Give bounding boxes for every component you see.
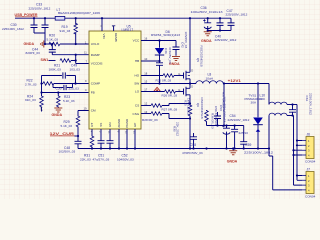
svg-text:GNDA: GNDA [227, 159, 238, 163]
svg-text:474/25V_03: 474/25V_03 [168, 47, 172, 64]
pin CSG [132, 110, 147, 116]
wire return feed to J6 pins 3 4 and J7 pin 3 [294, 116, 303, 186]
net label +12V1 [228, 79, 241, 83]
wire input cap ground rail [208, 30, 231, 32]
resistor R30 rotated label [172, 122, 179, 136]
wire sense column [221, 84, 225, 126]
svg-text:470PF/50V_03: 470PF/50V_03 [182, 151, 203, 155]
wire VCC [141, 40, 176, 42]
svg-text:225/100V_1812: 225/100V_1812 [215, 38, 237, 42]
svg-text:104/50V_03: 104/50V_03 [117, 157, 134, 161]
svg-text:SS: SS [99, 123, 103, 127]
capacitor C42 [173, 32, 189, 56]
capacitor C49 [42, 64, 81, 84]
svg-text:105/25V_03: 105/25V_03 [184, 32, 188, 49]
inductor L10 winding 2 [269, 113, 294, 115]
junction dots L10 [291, 103, 293, 116]
svg-text:RT: RT [90, 123, 94, 127]
svg-text:100u/50V_D10x13: 100u/50V_D10x13 [191, 10, 223, 14]
wire CS with resistor R27 [141, 104, 190, 112]
svg-text:91K_03: 91K_03 [60, 29, 71, 33]
pin VCC [133, 37, 148, 43]
svg-text:C56 330p/50V: C56 330p/50V [214, 106, 218, 127]
ferrite bead L7 [55, 8, 100, 20]
capacitor C61 [289, 93, 313, 116]
svg-text:CON04: CON04 [305, 160, 316, 164]
pin EN bottom [108, 122, 113, 134]
svg-text:Q6: Q6 [196, 103, 200, 107]
svg-text:30A: 30A [251, 101, 257, 105]
connector J7 [302, 167, 316, 198]
svg-text:10: 10 [144, 57, 147, 61]
resistor R29 [61, 111, 90, 137]
svg-text:HB: HB [135, 59, 139, 63]
wire AGND pin down [126, 129, 128, 149]
net label 12V_CUR [50, 132, 79, 136]
svg-text:VIN: VIN [102, 34, 106, 39]
svg-text:180K_03: 180K_03 [49, 68, 62, 72]
pin RT bottom [90, 123, 95, 133]
wire HO with resistor R25 [141, 74, 184, 83]
svg-text:18: 18 [144, 71, 147, 75]
resistor R21 [49, 55, 90, 72]
net label USB_POWER [15, 13, 38, 17]
svg-text:C42: C42 [181, 42, 185, 48]
svg-text:5.1K_03: 5.1K_03 [61, 124, 73, 128]
svg-text:22K_03: 22K_03 [80, 157, 91, 161]
capacitor C50 [53, 84, 79, 91]
pin COMP [85, 79, 100, 86]
svg-text:G: G [178, 72, 180, 76]
wire ground feed to J7 pin 4 [269, 149, 302, 190]
wire CSG with resistor R28 [141, 112, 190, 123]
resistor R20 [47, 34, 90, 46]
svg-text:100u/50V_D10x13: 100u/50V_D10x13 [222, 97, 226, 123]
svg-text:CM: CM [91, 109, 96, 113]
ground GNDA under R23 [52, 108, 63, 117]
svg-text:17: 17 [144, 87, 147, 91]
resistor R23 [57, 93, 75, 108]
capacitor C56 [214, 106, 221, 127]
wire HB [141, 60, 160, 62]
pin RAMP [84, 51, 100, 57]
svg-text:D: D [191, 85, 193, 89]
wire LO with resistor R26 [141, 90, 184, 98]
svg-text:R25 0R_03: R25 0R_03 [156, 78, 172, 82]
pin HB [135, 57, 148, 63]
resistor R36 [205, 110, 215, 129]
pin LO [135, 87, 148, 93]
wire left column [41, 76, 43, 93]
svg-text:+12V1: +12V1 [228, 79, 241, 83]
wire EP pin down [134, 129, 136, 149]
svg-text:PGND: PGND [125, 118, 129, 128]
svg-text:12V_CUR: 12V_CUR [50, 132, 75, 136]
svg-text:R27 0R_03: R27 0R_03 [162, 107, 178, 111]
pin AGND bottom [117, 118, 122, 133]
transistor Q6 [178, 84, 204, 119]
svg-text:COMP: COMP [91, 82, 100, 86]
svg-text:GNDA: GNDA [201, 39, 212, 43]
svg-text:C58: C58 [190, 143, 196, 147]
svg-text:225/100V_1812: 225/100V_1812 [2, 27, 24, 31]
label fragment C55 [239, 131, 249, 135]
svg-text:16: 16 [144, 37, 147, 41]
svg-text:J6: J6 [307, 132, 311, 136]
pin SS bottom [99, 123, 104, 133]
resistor R22 [25, 79, 89, 87]
resistor R35 shunt [183, 98, 192, 149]
svg-text:RSC002N05LB: RSC002N05LB [199, 46, 203, 67]
resistor R24 [25, 93, 43, 112]
junction dots connectors [268, 139, 298, 176]
junction dots input caps [207, 17, 222, 32]
capacitor C58 [182, 133, 203, 155]
capacitor C53 electrolytic output [219, 97, 230, 149]
junction dots left [33, 17, 79, 137]
svg-text:G: G [178, 88, 180, 92]
svg-text:R28 0R_03: R28 0R_03 [142, 118, 158, 122]
capacitor C59 [240, 126, 273, 155]
pin HO [135, 71, 148, 77]
svg-text:R26 0R_03: R26 0R_03 [162, 93, 178, 97]
wire cap bottoms to ground [34, 33, 45, 44]
ground GNDA input caps [201, 31, 212, 44]
pin VCCDIS [86, 59, 103, 65]
junction dots output bus [216, 124, 235, 126]
svg-text:SW: SW [134, 82, 139, 86]
wire output cap bus [207, 125, 244, 127]
svg-text:2.7K_03: 2.7K_03 [25, 83, 37, 87]
capacitor C44 [26, 44, 56, 55]
svg-text:22K_2512: 22K_2512 [176, 122, 180, 136]
svg-text:1W05_2512: 1W05_2512 [187, 98, 191, 115]
svg-text:RAMP: RAMP [91, 53, 100, 57]
svg-text:C59: C59 [245, 143, 251, 147]
ground GNDA under C42 [169, 57, 180, 66]
svg-text:5.1K_03: 5.1K_03 [47, 38, 59, 42]
svg-text:DEMB: DEMB [114, 33, 118, 42]
pin EP bottom [133, 123, 138, 135]
pin FB [85, 88, 95, 95]
svg-text:Q5: Q5 [196, 58, 200, 62]
wire ground rail bottom [78, 116, 269, 149]
ground GNDA bottom rail [227, 149, 238, 164]
svg-text:C53: C53 [219, 105, 223, 111]
pin SW [134, 79, 148, 85]
svg-text:C46: C46 [164, 48, 168, 54]
svg-text:91K_03: 91K_03 [25, 98, 36, 102]
svg-text:SW1: SW1 [41, 58, 49, 62]
svg-text:47u/27V_03: 47u/27V_03 [93, 157, 110, 161]
svg-text:USB_POWER: USB_POWER [15, 13, 38, 17]
wire output feed to J6 pins 1 2 and J7 pins 1 2 [297, 105, 302, 181]
svg-text:5.1K_03: 5.1K_03 [63, 99, 75, 103]
resistor R31 under RT [80, 129, 94, 161]
svg-text:RSF54_SOD(1)413: RSF54_SOD(1)413 [151, 33, 180, 37]
IC U5 LM5117 body [89, 24, 141, 129]
capacitor C52 under PGND [107, 129, 134, 161]
svg-text:EP: EP [133, 123, 137, 127]
svg-text:19: 19 [84, 106, 87, 110]
svg-text:VCCDIS: VCCDIS [91, 62, 103, 66]
svg-text:820PF_03: 820PF_03 [26, 51, 41, 55]
pin PGND bottom [125, 118, 130, 134]
svg-text:C50: C50 [56, 87, 62, 91]
capacitor C33 [29, 3, 51, 33]
svg-text:225/100V_1812: 225/100V_1812 [226, 13, 248, 17]
svg-text:CON04: CON04 [305, 195, 316, 199]
svg-text:BEAD/1206(0603)4R7_1206: BEAD/1206(0603)4R7_1206 [58, 11, 100, 15]
svg-text:225/100V_1812: 225/100V_1812 [29, 7, 51, 11]
svg-text:J7: J7 [307, 167, 311, 171]
wire FB [42, 92, 90, 94]
svg-text:225_03: 225_03 [69, 87, 80, 91]
svg-text:15: 15 [144, 79, 147, 83]
pin CS [135, 101, 148, 107]
wire +12V1 rail [223, 83, 269, 85]
svg-text:CS: CS [135, 104, 139, 108]
wire VIN rail [15, 17, 231, 19]
resistor R19 [60, 18, 78, 44]
svg-text:103_03: 103_03 [70, 68, 81, 72]
svg-text:102/50V_03: 102/50V_03 [59, 150, 76, 154]
svg-text:1R0: 1R0 [259, 97, 265, 101]
svg-text:C61: C61 [305, 96, 309, 102]
svg-text:VCC: VCC [133, 39, 140, 43]
pin DEMB top wire [111, 25, 118, 42]
svg-text:CSG: CSG [132, 112, 139, 116]
svg-text:FB: FB [91, 91, 95, 95]
pin UVLO [85, 40, 100, 46]
diode D6 [151, 30, 180, 61]
net label SW1 [41, 58, 56, 62]
svg-text:LM5117: LM5117 [122, 28, 134, 32]
pin CM [84, 106, 97, 112]
svg-text:AGND: AGND [117, 118, 121, 128]
svg-text:225/100V_1812: 225/100V_1812 [309, 93, 313, 115]
inductor L8 [196, 73, 223, 84]
svg-text:10uH: 10uH [206, 76, 213, 80]
junction dots IC area [91, 17, 259, 149]
capacitor C30 [2, 18, 38, 33]
capacitor C40 [215, 18, 237, 42]
svg-text:1u7: 1u7 [39, 107, 43, 112]
svg-text:UVLO: UVLO [91, 42, 100, 46]
svg-text:HO: HO [135, 74, 140, 78]
wire EN pin down [118, 129, 120, 149]
wire RAMP [52, 54, 89, 56]
capacitor C51 under SS [93, 129, 110, 161]
TVS diode TVS1 [245, 84, 263, 149]
svg-text:EN: EN [108, 122, 112, 126]
svg-text:12: 12 [144, 101, 147, 105]
test point red on LO wire [154, 87, 161, 91]
svg-text:D: D [191, 69, 193, 73]
capacitor C54 [228, 114, 250, 148]
svg-text:GNDA: GNDA [24, 42, 35, 46]
svg-text:R36 0R_03: R36 0R_03 [210, 113, 214, 129]
inductor L10 winding 1 [259, 84, 297, 105]
svg-text:225/100V_1812: 225/100V_1812 [228, 118, 250, 122]
capacitor C36 electrolytic input [191, 6, 223, 30]
ground GNDA left [24, 41, 53, 48]
svg-text:RSC002N05LB: RSC002N05LB [200, 98, 204, 119]
connector J6 [302, 132, 316, 163]
svg-text:GNDA: GNDA [52, 113, 63, 117]
capacitor C47 [226, 9, 248, 31]
capacitor C46 bootstrap [156, 47, 172, 84]
transistor Q5 [178, 18, 203, 83]
capacitor C48 [59, 136, 82, 154]
pin VIN top wire [100, 18, 107, 38]
svg-text:LO: LO [135, 90, 140, 94]
wire SW [141, 83, 196, 85]
